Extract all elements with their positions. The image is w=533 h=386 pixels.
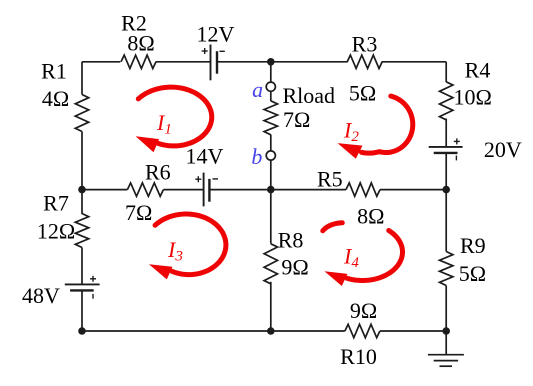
svg-text:4Ω: 4Ω (42, 86, 69, 111)
svg-text:5Ω: 5Ω (459, 261, 486, 286)
wire 20V to mid-right node (445, 153, 447, 190)
battery V3 20V (429, 146, 463, 148)
wire R2 to 12V (156, 61, 211, 63)
svg-text:9Ω: 9Ω (281, 255, 308, 280)
svg-text:R6: R6 (145, 159, 171, 184)
wire R4 to 20V (445, 119, 447, 147)
wire R9 to bottom-right node (445, 286, 447, 332)
wire bottom middle to R10 (271, 330, 345, 332)
svg-text:I2: I2 (343, 118, 359, 146)
wire R3 to top-right corner (382, 61, 447, 63)
svg-text:20V: 20V (484, 137, 522, 162)
svg-text:a: a (252, 77, 263, 102)
resistor R3 (347, 55, 382, 68)
wire b to middle node (270, 160, 272, 190)
mesh current loop I4 (broken arc) (323, 223, 343, 231)
wire middle node to R8 (270, 190, 272, 244)
terminal node b (270, 135, 272, 151)
junction middle-center (267, 186, 275, 194)
svg-text:9Ω: 9Ω (350, 298, 377, 323)
svg-text:b: b (251, 144, 262, 169)
wire R8 to bottom node (270, 282, 272, 331)
wire 12V to top node (217, 61, 271, 63)
wire R5 to mid-right node (380, 189, 446, 191)
svg-text:R3: R3 (352, 32, 378, 57)
resistor R10 (345, 324, 380, 337)
junction mid-left (78, 186, 86, 194)
junction mid-right (442, 186, 450, 194)
wire right vertical top (445, 62, 447, 82)
junction bottom-left (78, 327, 86, 335)
wire middle-right segment (271, 189, 346, 191)
wire R10 to bottom-right node (380, 330, 446, 332)
svg-text:14V: 14V (185, 144, 223, 169)
junction bottom-right (442, 327, 450, 335)
svg-text:R5: R5 (317, 166, 343, 191)
svg-text:8Ω: 8Ω (127, 31, 154, 56)
terminal node a (266, 82, 275, 91)
resistor R6 (127, 183, 163, 196)
wire R7 to 48V battery (81, 248, 83, 285)
resistor R2 (121, 55, 156, 68)
wire to R7 (81, 190, 83, 214)
wire R6 to 14V (163, 189, 203, 191)
battery V1 12V (210, 45, 212, 81)
svg-text:I1: I1 (156, 110, 172, 138)
resistor R1 (75, 95, 88, 132)
svg-text:7Ω: 7Ω (125, 200, 152, 225)
wire node to R3 (271, 61, 348, 63)
wire mid-right to R9 (445, 190, 447, 252)
resistor R5 (346, 183, 380, 196)
wire 48V to bottom-left corner (81, 290, 83, 331)
resistor R7 (75, 214, 88, 248)
mesh current loop I1 (138, 87, 211, 146)
mesh current loop I3 (155, 214, 226, 275)
svg-text:R9: R9 (460, 233, 486, 258)
wire left vertical top (81, 62, 83, 95)
svg-text:R4: R4 (465, 58, 491, 83)
svg-text:I3: I3 (167, 237, 183, 265)
svg-text:5Ω: 5Ω (349, 81, 376, 106)
svg-text:48V: 48V (22, 283, 60, 308)
wire top-left segment (82, 61, 120, 63)
svg-text:R10: R10 (340, 344, 377, 369)
battery V2 14V (203, 173, 205, 207)
svg-text:8Ω: 8Ω (357, 204, 384, 229)
resistor R8 (264, 244, 277, 284)
mesh current loop I2 (362, 96, 413, 153)
svg-text:12Ω: 12Ω (37, 218, 75, 243)
svg-text:I4: I4 (343, 244, 359, 272)
svg-text:R1: R1 (41, 59, 67, 84)
junction bottom-middle (267, 327, 275, 335)
resistor Rload (270, 91, 272, 101)
wire middle-left segment (82, 189, 127, 191)
resistor R9 (440, 252, 453, 286)
svg-text:7Ω: 7Ω (283, 107, 310, 132)
svg-text:12V: 12V (197, 22, 235, 47)
junction top-middle (267, 58, 275, 66)
svg-text:R8: R8 (278, 228, 304, 253)
wire R1 to mid-left node (81, 132, 83, 190)
wire 14V to middle node (209, 189, 270, 191)
wire bottom-left segment (82, 330, 271, 332)
resistor R4 (440, 82, 453, 120)
svg-text:R7: R7 (43, 190, 69, 215)
svg-text:10Ω: 10Ω (454, 84, 492, 109)
wire top node down to terminal a (270, 62, 272, 82)
svg-text:Rload: Rload (283, 83, 336, 108)
battery V4 48V (65, 283, 100, 285)
ground (445, 331, 447, 355)
